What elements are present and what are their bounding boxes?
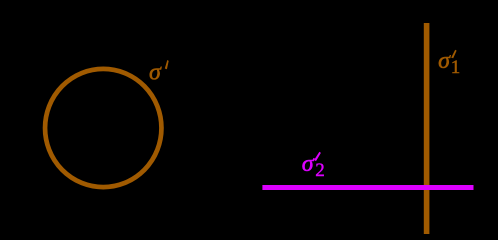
label sigma'1 (vertical line label) <box>438 48 460 78</box>
wire: horizontal mirror line sigma'2 <box>262 185 473 190</box>
label sigma' (circle label) <box>149 60 169 86</box>
circle sigma' (circular mirror line) <box>45 69 161 187</box>
svg-text:σ: σ <box>438 48 451 74</box>
wire: vertical mirror line sigma'1 <box>424 23 430 234</box>
svg-text:σ: σ <box>149 60 162 86</box>
label sigma'2 (horizontal line label) <box>302 151 325 181</box>
svg-text:σ: σ <box>302 151 315 177</box>
svg-text:2: 2 <box>315 160 325 181</box>
svg-text:1: 1 <box>451 57 461 78</box>
